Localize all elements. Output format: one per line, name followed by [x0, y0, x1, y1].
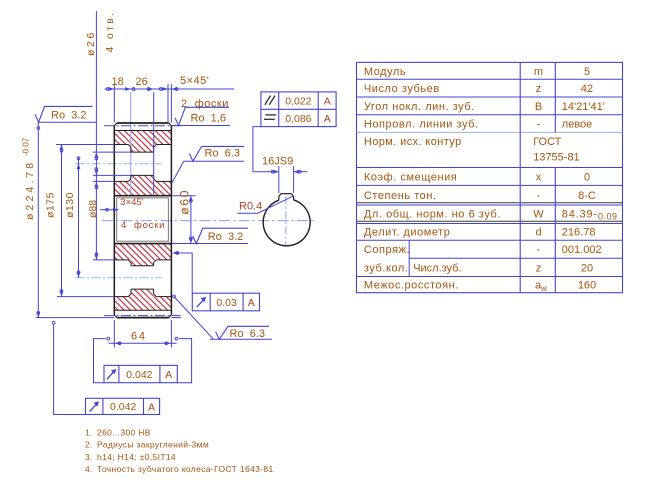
svg-text:-: - — [537, 119, 541, 131]
svg-text:Угол нокл. лин. зуб.: Угол нокл. лин. зуб. — [364, 101, 475, 113]
svg-text:ø224.78: ø224.78 — [24, 160, 36, 220]
svg-text:8-C: 8-C — [578, 190, 596, 202]
svg-text:-: - — [537, 190, 541, 202]
svg-text:Числ.зуб.: Числ.зуб. — [413, 262, 461, 274]
svg-text:Коэф. смещения: Коэф. смещения — [364, 171, 457, 183]
svg-text:26: 26 — [136, 76, 148, 88]
svg-text:84.39-: 84.39- — [562, 209, 598, 221]
svg-text:Степень тон.: Степень тон. — [364, 190, 437, 202]
svg-text:A: A — [165, 369, 172, 381]
svg-text:ГОСТ: ГОСТ — [533, 136, 561, 148]
svg-text:Нопровл. линии зуб.: Нопровл. линии зуб. — [364, 119, 479, 131]
svg-text:h14; H14; ±0,5IT14: h14; H14; ±0,5IT14 — [97, 452, 176, 462]
svg-text:Дл. общ. норм. но 6 зуб.: Дл. общ. норм. но 6 зуб. — [364, 209, 501, 221]
svg-text:0.03: 0.03 — [216, 297, 237, 309]
svg-text:Ro 6.3: Ro 6.3 — [230, 328, 265, 340]
svg-text:18: 18 — [112, 76, 124, 88]
svg-text:0,022: 0,022 — [285, 96, 311, 108]
svg-text:z: z — [536, 83, 542, 95]
svg-text:Сопряж.: Сопряж. — [364, 244, 410, 256]
svg-text:ø60: ø60 — [178, 189, 192, 215]
svg-text:R0.4: R0.4 — [239, 200, 262, 212]
svg-text:Число зубьев: Число зубьев — [364, 83, 440, 95]
svg-text:левое: левое — [562, 119, 593, 131]
svg-text:Делит. диометр: Делит. диометр — [364, 227, 451, 239]
svg-text:0: 0 — [584, 171, 590, 183]
svg-text:5: 5 — [584, 66, 590, 78]
svg-text:3×45': 3×45' — [120, 197, 143, 208]
svg-text:14'21'41': 14'21'41' — [562, 101, 605, 113]
svg-text:4.: 4. — [85, 464, 92, 474]
svg-text:A: A — [324, 113, 331, 125]
svg-text:-: - — [537, 244, 541, 256]
svg-text:-0.07: -0.07 — [22, 137, 31, 156]
svg-text:m: m — [534, 66, 543, 78]
svg-text:260...300 HB: 260...300 HB — [97, 428, 151, 438]
svg-text:A: A — [324, 96, 331, 108]
svg-text:64: 64 — [131, 331, 147, 343]
svg-text:Норм. исх. контур: Норм. исх. контур — [364, 136, 462, 148]
svg-text:001.002: 001.002 — [562, 244, 602, 256]
svg-text:20: 20 — [581, 262, 593, 274]
svg-text:зуб.кол.: зуб.кол. — [364, 262, 409, 274]
svg-text:x: x — [536, 171, 542, 183]
svg-text:2 фоски: 2 фоски — [181, 98, 229, 110]
svg-text:Ro 6.3: Ro 6.3 — [205, 148, 240, 160]
svg-text:2.: 2. — [85, 440, 92, 450]
svg-text:B: B — [535, 101, 542, 113]
svg-text:A: A — [248, 297, 255, 309]
svg-text:Точность зубчатого колеса-ГОСТ: Точность зубчатого колеса-ГОСТ 1643-81 — [97, 464, 274, 474]
svg-text:d: d — [535, 227, 541, 239]
svg-text:0,086: 0,086 — [285, 113, 311, 125]
svg-text:3.: 3. — [85, 452, 92, 462]
svg-text:Ro 3.2: Ro 3.2 — [51, 110, 86, 122]
svg-text:Модуль: Модуль — [364, 66, 406, 78]
svg-text:4 фоски: 4 фоски — [121, 220, 165, 231]
svg-text:ø175: ø175 — [44, 192, 56, 218]
svg-text:Межос.росстоян.: Межос.росстоян. — [364, 280, 459, 292]
svg-text:Радиусы закруглений-3мм: Радиусы закруглений-3мм — [97, 440, 209, 450]
svg-text:z: z — [536, 262, 542, 274]
svg-text:Ro 1,6: Ro 1,6 — [191, 113, 226, 125]
svg-text:ø26: ø26 — [85, 30, 97, 56]
svg-text:16JS9: 16JS9 — [262, 155, 293, 167]
svg-text:w: w — [540, 284, 547, 293]
svg-text:216.78: 216.78 — [562, 227, 596, 239]
svg-text:W: W — [533, 209, 544, 221]
svg-text:1.: 1. — [85, 428, 92, 438]
svg-text:4 отв.: 4 отв. — [104, 10, 116, 52]
svg-text:0.042: 0.042 — [110, 401, 136, 413]
svg-text:0.09: 0.09 — [598, 212, 618, 222]
svg-text:ø130: ø130 — [64, 192, 76, 218]
svg-text:42: 42 — [581, 83, 593, 95]
svg-text:160: 160 — [578, 280, 596, 292]
svg-text:Ro 3.2: Ro 3.2 — [208, 231, 243, 243]
svg-text:0.042: 0.042 — [126, 369, 152, 381]
svg-text:13755-81: 13755-81 — [533, 152, 580, 164]
svg-text:5×45': 5×45' — [180, 75, 209, 87]
svg-text:ø88: ø88 — [87, 200, 99, 218]
svg-text:A: A — [148, 401, 155, 413]
